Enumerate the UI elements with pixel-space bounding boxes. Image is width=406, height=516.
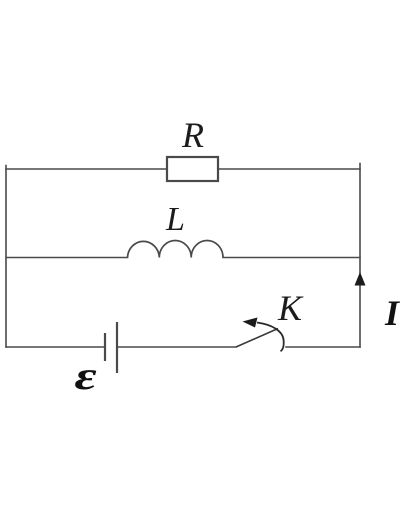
svg-text:R: R <box>181 115 204 155</box>
wire bottom-middle horizontal <box>118 346 236 348</box>
wire bottom-right horizontal <box>286 346 360 348</box>
wire middle-left horizontal <box>6 257 128 259</box>
resistor R <box>167 157 218 181</box>
switch K blade <box>236 329 278 348</box>
wire top-left horizontal <box>6 168 167 170</box>
switch arc arrow curve <box>257 323 284 352</box>
svg-text:ε: ε <box>74 354 97 398</box>
current arrow I <box>355 272 366 286</box>
battery short plate <box>104 333 106 361</box>
inductor L <box>128 240 224 257</box>
battery long plate <box>116 322 118 373</box>
svg-text:L: L <box>165 201 185 238</box>
wire top-right horizontal <box>218 168 360 170</box>
wire middle-right horizontal <box>223 257 360 259</box>
wire left vertical <box>5 166 7 348</box>
svg-text:I: I <box>384 293 401 333</box>
switch arrowhead <box>243 318 258 328</box>
wire right vertical <box>359 164 361 348</box>
wire bottom-left horizontal <box>6 346 104 348</box>
svg-text:K: K <box>277 288 304 328</box>
